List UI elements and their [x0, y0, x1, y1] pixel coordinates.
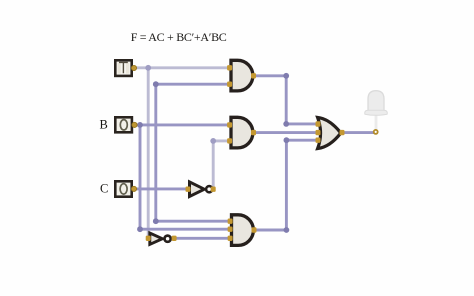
wire net C upper horizontal (to AND U1 pin 2) [156, 83, 230, 86]
AND U3 output pin [252, 227, 257, 232]
corner node net B lower [137, 226, 143, 232]
junction net A [145, 65, 151, 71]
OR U6 pin 2 [316, 130, 321, 135]
wire net A vertical (junction down to NOT U5 input) [147, 68, 150, 239]
svg-text:B: B [100, 118, 108, 132]
LED D1 terminal node [374, 130, 378, 134]
AND U1 output pin [251, 73, 256, 78]
junction net B [137, 122, 143, 128]
corner node net A'BC bottom [284, 227, 290, 233]
AND gate U2 (BC') [231, 117, 253, 148]
AND gate U1 (AC) [231, 60, 253, 91]
wire net A horizontal (input A to AND U1 pin 1) [135, 66, 230, 69]
corner node net A'BC top [284, 137, 290, 143]
NOT gate U5 (A') [150, 233, 171, 244]
input B pin [132, 122, 137, 127]
wire net B vertical (junction down) [139, 125, 142, 229]
input C pin [131, 186, 136, 191]
AND U2 pin 2 [227, 138, 232, 143]
wire net C horizontal (input C to NOT U4 input) [136, 187, 189, 190]
corner node net C upper [153, 81, 159, 87]
OR gate U6 (3-input, output F) [318, 117, 341, 148]
wire net A' horizontal (NOT U5 output to AND U3 pin 3) [172, 237, 231, 240]
NOT U4 output pin [211, 187, 216, 192]
corner node net AC bottom [283, 121, 289, 127]
corner node net AC top [283, 73, 289, 79]
NOT gate U4 (C') [190, 182, 213, 197]
wire net C' vertical (NOT U4 output up) [212, 141, 215, 189]
AND U3 pin 2 [228, 227, 233, 232]
input C switch (value 0) [114, 180, 133, 198]
wire net A'BC horizontal (to OR U6 pin 3) [286, 139, 318, 142]
svg-text:C: C [100, 182, 108, 196]
NOT U5 output pin [172, 236, 177, 241]
corner node net C lower [153, 218, 159, 224]
wire net F (OR U6 output to LED D1) [342, 131, 374, 134]
wire net C' horizontal (to AND U2 pin 2) [213, 139, 230, 142]
OR U6 pin 3 [316, 138, 321, 143]
AND U1 pin 2 [227, 82, 232, 87]
NOT U4 input pin [186, 187, 191, 192]
svg-text:F = AC + BC′+A′BC: F = AC + BC′+A′BC [131, 30, 227, 44]
wire net C vertical (up to AND U1, down to AND U3) [154, 84, 157, 221]
wire net C lower horizontal (to AND U3 pin 1) [156, 220, 231, 223]
LED D1 stem [375, 112, 378, 130]
AND U1 pin 1 [227, 65, 232, 70]
wire net AC vertical [285, 76, 288, 124]
input A switch (value 1) [114, 59, 133, 77]
wire net A'BC horizontal (AND U3 output right) [254, 229, 287, 232]
LED D1 flange [365, 110, 388, 115]
corner node net C' [210, 138, 216, 144]
wire net B horizontal lower (to AND U3 pin 2) [140, 228, 231, 231]
input A pin [131, 65, 136, 70]
wire net A'BC vertical [285, 140, 288, 230]
wire net AC horizontal (AND U1 output right) [254, 74, 287, 77]
AND U2 pin 1 [227, 122, 232, 127]
AND U3 pin 1 [228, 219, 233, 224]
wire net AC horizontal (to OR U6 pin 1) [286, 122, 318, 125]
AND U2 output pin [251, 130, 256, 135]
wire net BC' horizontal (AND U2 output to OR U6 pin 2) [254, 131, 319, 134]
AND gate U3 (A'BC, 3-input) [232, 215, 254, 246]
input B switch (value 0) [114, 116, 133, 134]
OR U6 pin 1 [316, 121, 321, 126]
OR U6 output pin [340, 130, 345, 135]
AND U3 pin 3 [228, 236, 233, 241]
wire net B horizontal (input B to AND U2 pin 1) [136, 123, 230, 126]
NOT U5 input pin [146, 236, 151, 241]
LED D1 dome [368, 91, 384, 111]
